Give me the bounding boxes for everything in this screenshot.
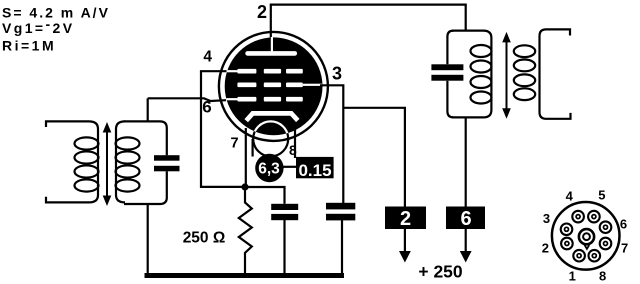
svg-text:2: 2 xyxy=(542,240,549,255)
svg-text:7: 7 xyxy=(621,240,628,255)
svg-text:6: 6 xyxy=(620,217,627,232)
anode internal lead xyxy=(271,37,273,52)
wire capacitor C2 to rail xyxy=(283,220,285,274)
svg-text:7: 7 xyxy=(230,136,238,152)
svg-text:3: 3 xyxy=(543,211,550,226)
wire T2 primary bottom to box 6 xyxy=(465,117,467,207)
transformer T2 primary frame and spine xyxy=(452,31,491,118)
wire T1 secondary bottom to ground rail xyxy=(147,204,149,274)
svg-text:6: 6 xyxy=(460,208,471,230)
wire capacitor C3 to rail xyxy=(341,220,343,274)
svg-text:8: 8 xyxy=(289,142,297,158)
svg-text:3: 3 xyxy=(332,64,342,84)
supply box 2 xyxy=(385,207,426,230)
supply box 6 xyxy=(446,207,485,230)
socket pin 8 xyxy=(589,250,601,262)
wire T2 frame left with capacitor C4 xyxy=(447,31,453,65)
socket pin 1 xyxy=(573,250,585,262)
transformer T1 secondary coil loops xyxy=(116,137,140,191)
capacitor C2 plates xyxy=(271,204,298,210)
transformer T1 primary coil leads (open antenna ends with hooks) xyxy=(46,121,98,202)
wire pin 4 lead and vertical to cathode node xyxy=(201,71,243,187)
svg-text:2: 2 xyxy=(257,2,267,22)
svg-text:8: 8 xyxy=(599,269,606,284)
transformer T2 primary loops xyxy=(471,45,492,104)
svg-text:Ri=1M: Ri=1M xyxy=(2,38,56,54)
anode plate bar xyxy=(245,51,297,56)
wire capacitor C1 bottom to T1 secondary bottom xyxy=(124,171,167,204)
arrow to +250 (left) xyxy=(399,251,411,263)
svg-text:+ 250: + 250 xyxy=(418,262,463,282)
svg-text:5: 5 xyxy=(598,188,605,203)
svg-text:0.15: 0.15 xyxy=(298,161,331,180)
transformer T1 secondary coil spine xyxy=(116,121,125,202)
socket center spigot circle xyxy=(579,229,594,244)
transformer T2 tuning arrow xyxy=(502,32,511,119)
transformer T2 secondary loops xyxy=(514,45,535,100)
svg-text:6,3: 6,3 xyxy=(258,160,280,177)
ground rail xyxy=(145,273,345,278)
cathode hat xyxy=(246,113,298,120)
wire box 6 to arrow xyxy=(465,229,467,252)
svg-text:2: 2 xyxy=(400,208,411,230)
grid g1 row (pin 4) xyxy=(227,69,303,74)
svg-text:4: 4 xyxy=(566,189,574,204)
wire grid bus from T1 to tube pin 6 xyxy=(148,98,226,101)
grid g2 row (pin 3) xyxy=(237,83,321,88)
wire anode pin 2 to transformer T2 xyxy=(271,5,466,38)
wire pin 3 lead to screen node xyxy=(320,85,343,203)
resistor R1 250 ohm zigzag xyxy=(239,190,252,274)
svg-text:1: 1 xyxy=(569,269,576,284)
junction node dot (cathode) xyxy=(241,183,248,190)
wire screen node to box 2 xyxy=(343,108,405,207)
heater current box 0,15 xyxy=(296,157,334,178)
heater circle black part (outside disc) xyxy=(253,121,288,156)
transformer T1 primary coil loops xyxy=(75,137,99,191)
socket pin 6 xyxy=(600,221,612,233)
wire T1 secondary top to capacitor C1 xyxy=(124,121,167,155)
socket pin 5 xyxy=(588,211,600,223)
transformer T1 tuning arrow (variable coupling) xyxy=(103,122,112,206)
wire pin 7 cathode lead xyxy=(245,128,247,187)
socket pin 3 xyxy=(561,224,573,236)
socket center inner circle xyxy=(583,233,590,240)
wire box 2 to arrow xyxy=(404,229,406,252)
heater voltage circle 6,3 xyxy=(255,154,283,182)
grid g3 row (pin 6) xyxy=(227,97,303,102)
svg-text:4: 4 xyxy=(203,49,212,66)
wire capacitor C4 bottom xyxy=(447,81,453,118)
capacitor C1 plates xyxy=(154,155,180,161)
tube V1 envelope outer circle xyxy=(219,32,328,141)
socket key notch xyxy=(585,245,590,249)
socket diagram outer circle xyxy=(552,202,620,270)
wire node to capacitor C2 xyxy=(245,187,285,204)
socket pin 2 xyxy=(561,238,573,250)
tube V1 inner disc (black) xyxy=(225,37,323,135)
wire 6,3 circle to 0,15 box xyxy=(283,166,297,168)
svg-text:250 Ω: 250 Ω xyxy=(183,230,226,247)
socket pin 7 xyxy=(600,238,612,250)
transformer T2 secondary spine and output leads with hooks xyxy=(540,29,571,118)
svg-text:S= 4.2 m A/V: S= 4.2 m A/V xyxy=(2,5,110,21)
wire pin 8 heater lead xyxy=(294,129,296,159)
socket pin 4 xyxy=(572,211,584,223)
heater circle white part (inside disc) xyxy=(253,121,288,156)
arrow to +250 (right) xyxy=(460,251,472,263)
capacitor C4 plates xyxy=(431,64,463,70)
wire heater left lead to 6,3 circle xyxy=(252,139,254,157)
wire node: T1 secondary top to grid wire xyxy=(147,98,149,121)
capacitor C3 plates xyxy=(326,203,355,210)
